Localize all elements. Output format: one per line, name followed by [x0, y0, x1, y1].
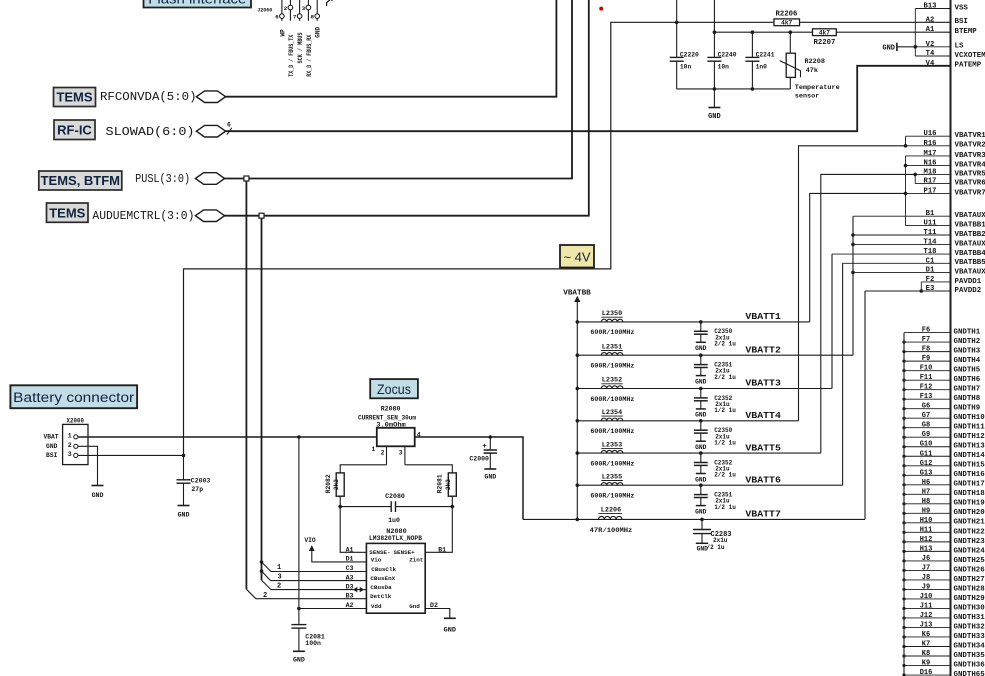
svg-text:/2 1u: /2 1u	[707, 544, 725, 551]
wire VBATBB5 to VBATT6	[842, 263, 844, 485]
svg-text:H12: H12	[920, 536, 933, 544]
svg-text:V2: V2	[926, 41, 935, 49]
svg-text:8: 8	[311, 13, 315, 20]
svg-text:Vio: Vio	[371, 556, 382, 563]
svg-text:G9: G9	[922, 431, 930, 439]
svg-text:C2003: C2003	[191, 478, 211, 485]
pin label D3	[346, 583, 354, 590]
wire VBATT5 row	[577, 451, 821, 455]
svg-text:2/2 1u: 2/2 1u	[714, 341, 736, 348]
label TEMS (RFCONVDA)	[54, 88, 96, 107]
wire RFCONVDA bus	[225, 0, 556, 97]
svg-text:GNDTH21: GNDTH21	[954, 519, 985, 527]
svg-text:J12: J12	[920, 612, 933, 620]
svg-text:G6: G6	[922, 403, 930, 411]
pin M17 VBATVR3	[906, 150, 985, 160]
pin J10 GNDTH29	[904, 593, 985, 603]
pin J6 GNDTH25	[904, 555, 985, 565]
svg-text:F12: F12	[920, 384, 933, 392]
pin K7 GNDTH34	[904, 640, 985, 650]
svg-text:V4: V4	[926, 60, 935, 68]
svg-text:27p: 27p	[191, 486, 203, 493]
svg-text:G12: G12	[920, 460, 933, 468]
pin T11 VBATBB2	[853, 229, 985, 239]
svg-text:H6: H6	[922, 479, 930, 487]
svg-text:VBATT4: VBATT4	[745, 410, 781, 421]
svg-text:2/2 1u: 2/2 1u	[714, 374, 736, 381]
pin F6 GNDTH1	[904, 327, 981, 337]
svg-text:3: 3	[399, 450, 403, 457]
wire VBATT4 row	[577, 419, 798, 423]
svg-text:CBusEnX: CBusEnX	[370, 575, 395, 582]
svg-text:SENSE+: SENSE+	[394, 549, 416, 556]
svg-text:F10: F10	[920, 365, 933, 373]
svg-text:GNDTH19: GNDTH19	[954, 500, 985, 508]
svg-text:A1: A1	[346, 547, 354, 554]
svg-text:VBATBB2: VBATBB2	[955, 231, 985, 239]
node PUSL tap square	[244, 176, 249, 181]
IC N2080 (LM3820TLX_NOPB)	[366, 528, 425, 613]
svg-text:B13: B13	[924, 3, 937, 11]
svg-text:D16: D16	[920, 669, 933, 676]
pin U11 VBATBB1	[906, 220, 985, 230]
label Battery connector	[10, 385, 137, 408]
svg-text:GNDTH20: GNDTH20	[954, 509, 985, 517]
svg-text:1u0: 1u0	[388, 517, 400, 524]
svg-text:SENSE-: SENSE-	[369, 549, 390, 556]
svg-text:C2220: C2220	[680, 52, 699, 59]
svg-text:R2206: R2206	[776, 10, 798, 18]
svg-text:AUDUEMCTRL(3:0): AUDUEMCTRL(3:0)	[92, 209, 194, 223]
wire R2080 pin4 to VBATT7	[415, 435, 523, 519]
svg-text:H7: H7	[922, 488, 930, 496]
svg-text:Temperature: Temperature	[795, 84, 840, 92]
svg-text:3: 3	[278, 573, 282, 581]
svg-text:600R/100MHz: 600R/100MHz	[590, 363, 634, 370]
svg-text:R16: R16	[924, 140, 937, 148]
inductor L2354	[590, 409, 634, 435]
svg-text:GND: GND	[708, 113, 721, 121]
bus terminator AUDUEMCTRL	[195, 210, 224, 222]
ground (C2000)	[484, 469, 496, 481]
svg-text:GND: GND	[293, 656, 305, 663]
svg-text:C2080: C2080	[385, 493, 405, 500]
svg-text:GND: GND	[882, 44, 895, 52]
node AUDUEMCTRL tap square	[259, 213, 264, 218]
svg-text:GNDTH27: GNDTH27	[954, 576, 985, 584]
svg-text:K7: K7	[922, 640, 930, 648]
net label VBATT6	[745, 474, 781, 485]
svg-text:2k2: 2k2	[333, 479, 340, 490]
svg-text:GND: GND	[695, 378, 707, 385]
wire CBusClk breakout bit1	[260, 560, 367, 572]
svg-text:GNDTH29: GNDTH29	[954, 595, 985, 603]
svg-text:GNDTH11: GNDTH11	[954, 424, 985, 432]
wire Gnd pin D2	[425, 609, 450, 619]
svg-text:J9: J9	[922, 583, 930, 591]
svg-text:1/2 1u: 1/2 1u	[714, 439, 736, 446]
pin label A2	[346, 602, 354, 609]
ground (BTEMP filters)	[708, 89, 721, 121]
pin U16 VBATVR1	[906, 130, 985, 140]
pin G6 GNDTH9	[904, 403, 980, 413]
svg-text:GNDTH5: GNDTH5	[954, 367, 981, 375]
svg-text:~ 4V: ~ 4V	[563, 250, 590, 265]
pin H12 GNDTH23	[904, 536, 985, 546]
svg-text:R2080: R2080	[381, 406, 401, 413]
svg-text:GNDTH9: GNDTH9	[954, 405, 981, 413]
svg-text:VBAT: VBAT	[43, 434, 58, 441]
svg-text:B1: B1	[438, 547, 446, 554]
svg-text:GNDTH3: GNDTH3	[954, 348, 981, 356]
resistor R2082	[325, 473, 344, 496]
svg-text:H11: H11	[920, 526, 933, 534]
svg-text:GNDTH4: GNDTH4	[954, 357, 981, 365]
svg-text:Battery connector: Battery connector	[13, 390, 135, 405]
wire R2080 pin3 to R2081	[405, 465, 452, 473]
net label VBATT2	[745, 344, 781, 355]
svg-text:4k7: 4k7	[819, 30, 830, 37]
wire PAVDD1-2 tie	[920, 282, 924, 293]
svg-text:GNDTH2: GNDTH2	[954, 338, 981, 346]
capacitor C2240	[707, 0, 736, 89]
svg-text:GNDTH16: GNDTH16	[954, 471, 985, 479]
net label VBATT7	[745, 509, 781, 520]
pin E3 PAVDD2	[865, 285, 982, 295]
svg-text:Zocus: Zocus	[377, 382, 411, 397]
wire VBATBB4 to VBATT3	[831, 254, 833, 388]
svg-text:6: 6	[275, 13, 279, 20]
svg-text:1n0: 1n0	[756, 64, 768, 71]
svg-text:PUSL(3:0): PUSL(3:0)	[135, 172, 190, 186]
svg-text:BSI: BSI	[46, 452, 58, 459]
wire Vdd to VBAT	[297, 607, 366, 611]
pin C1 VBATBB5	[843, 257, 985, 267]
svg-text:K9: K9	[922, 660, 930, 668]
svg-text:R17: R17	[924, 178, 937, 186]
svg-text:Gnd: Gnd	[409, 603, 420, 610]
svg-text:J2060: J2060	[257, 6, 273, 13]
capacitor C2003	[177, 455, 211, 505]
inductor L2353	[590, 441, 634, 467]
svg-text:600R/100MHz: 600R/100MHz	[590, 396, 634, 403]
svg-text:VBATAUX2: VBATAUX2	[955, 240, 985, 248]
pin G9 GNDTH12	[904, 431, 985, 441]
node BTEMP/R2208 junction	[789, 30, 793, 34]
pin K6 GNDTH33	[904, 631, 985, 641]
svg-text:600R/100MHz: 600R/100MHz	[590, 460, 634, 467]
svg-text:VIO: VIO	[304, 537, 316, 544]
wire SLOWAD bus to PATEMP	[225, 66, 951, 131]
svg-text:K6: K6	[922, 631, 930, 639]
pin G11 GNDTH14	[904, 450, 985, 460]
svg-text:2: 2	[381, 450, 385, 457]
svg-text:BSI: BSI	[955, 18, 968, 26]
pin T4 VCXOTEM	[915, 50, 985, 60]
svg-text:DetClk: DetClk	[370, 593, 392, 600]
svg-text:J10: J10	[920, 593, 933, 601]
wire VBATT6 row	[577, 483, 842, 487]
svg-text:J7: J7	[922, 564, 930, 572]
inductor L2355	[590, 473, 634, 499]
svg-text:PAVDD1: PAVDD1	[955, 278, 982, 286]
svg-text:1: 1	[372, 446, 376, 453]
svg-text:GNDTH25: GNDTH25	[954, 557, 985, 565]
pin M18 VBATVR5	[915, 168, 985, 178]
connector J2060 designator	[257, 6, 273, 13]
ground (battery pin 2)	[92, 486, 104, 499]
wire AUDUEMCTRL vertical drop	[261, 218, 263, 580]
pin G7 GNDTH10	[904, 412, 985, 422]
svg-text:GND: GND	[484, 474, 496, 481]
svg-text:GNDTH1: GNDTH1	[954, 329, 981, 337]
svg-text:2: 2	[68, 442, 72, 449]
pin J7 GNDTH26	[904, 564, 985, 574]
svg-text:4k7: 4k7	[781, 20, 792, 27]
ground (LS pin)	[882, 43, 915, 53]
net RFCONVDA(5:0) name	[100, 90, 197, 104]
pin V2 LS	[897, 41, 964, 51]
pin G10 GNDTH13	[904, 441, 985, 451]
svg-text:2k2: 2k2	[445, 479, 452, 490]
svg-text:G10: G10	[920, 441, 933, 449]
svg-text:LM3820TLX_NOPB: LM3820TLX_NOPB	[369, 535, 422, 542]
pin label C3	[346, 565, 354, 572]
pin K8 GNDTH35	[904, 650, 985, 660]
capacitor C2080	[340, 493, 452, 524]
wire BSI from battery	[78, 454, 184, 456]
label TEMS, BTFM (PUSL)	[39, 171, 122, 190]
svg-text:sensor: sensor	[795, 93, 819, 101]
sense resistor R2080	[358, 406, 421, 465]
svg-text:GND: GND	[695, 345, 707, 352]
pin P17 VBATVR7	[906, 187, 985, 197]
bus terminator RFCONVDA	[196, 91, 225, 103]
connector X2000	[43, 418, 88, 465]
svg-text:VBATVR7: VBATVR7	[955, 189, 985, 197]
svg-text:N16: N16	[924, 160, 937, 168]
svg-text:F2: F2	[926, 276, 935, 284]
svg-text:VBATAUX1: VBATAUX1	[955, 212, 985, 220]
pin J8 GNDTH27	[904, 574, 985, 584]
svg-text:GNDTH7: GNDTH7	[954, 386, 981, 394]
svg-text:J13: J13	[920, 621, 933, 629]
svg-text:GNDTH24: GNDTH24	[954, 547, 985, 555]
inductor L2352	[590, 377, 634, 403]
svg-text:RX_D / FBUS_RX: RX_D / FBUS_RX	[306, 34, 313, 76]
ground (N2080 Gnd)	[444, 618, 456, 634]
svg-text:RF-IC: RF-IC	[57, 122, 92, 137]
bus width tick 6	[227, 122, 232, 135]
svg-text:47k: 47k	[806, 67, 818, 75]
capacitor C2351 (VBATT2)	[694, 355, 736, 385]
svg-text:GNDTH8: GNDTH8	[954, 395, 981, 403]
wire battery GND pin	[78, 446, 98, 485]
svg-text:GNDTH33: GNDTH33	[954, 633, 985, 641]
svg-text:R2207: R2207	[813, 39, 835, 47]
svg-text:2: 2	[284, 5, 288, 12]
pin H9 GNDTH20	[904, 507, 985, 517]
svg-text:VBATT1: VBATT1	[745, 311, 781, 322]
svg-text:F9: F9	[922, 355, 930, 363]
pin F10 GNDTH5	[904, 365, 980, 375]
svg-text:600R/100MHz: 600R/100MHz	[590, 493, 634, 500]
node BSI/C2220 junction	[675, 21, 679, 25]
svg-text:G11: G11	[920, 450, 933, 458]
svg-text:GNDTH22: GNDTH22	[954, 528, 985, 536]
svg-text:6: 6	[227, 122, 231, 129]
svg-text:F13: F13	[920, 393, 933, 401]
svg-text:GND: GND	[315, 26, 322, 37]
svg-text:F8: F8	[922, 346, 930, 354]
svg-text:GNDTH13: GNDTH13	[954, 443, 985, 451]
pin F7 GNDTH2	[904, 336, 980, 346]
wire AUDUEMCTRL bus	[224, 0, 589, 216]
net label VBATT3	[745, 378, 781, 389]
pin H11 GNDTH22	[904, 526, 985, 536]
net label VBATT1	[745, 311, 781, 322]
svg-text:VBATT6: VBATT6	[745, 474, 781, 485]
connector J2060 pins	[275, 0, 321, 77]
svg-text:47R/100MHz: 47R/100MHz	[590, 527, 633, 534]
svg-text:GNDTH14: GNDTH14	[954, 452, 985, 460]
svg-text:10n: 10n	[680, 64, 692, 71]
svg-text:BTEMP: BTEMP	[955, 28, 978, 36]
wire CBusDa breakout bit2	[262, 580, 367, 592]
pin H13 GNDTH24	[904, 545, 985, 555]
svg-text:VBATT3: VBATT3	[745, 378, 781, 389]
capacitor C2352 (VBATT5)	[694, 453, 736, 483]
wire VBATVR3-4-7-BB1 tie	[904, 156, 908, 226]
pin T14 VBATAUX2	[853, 238, 985, 248]
pin B13 VSS	[915, 3, 968, 13]
label TEMS (AUDUEMCTRL)	[47, 203, 89, 222]
wire VBAT drop to Vdd/C2081	[298, 437, 300, 625]
svg-text:GNDTH23: GNDTH23	[954, 538, 985, 546]
wire VBATT7 row	[523, 518, 865, 522]
pin label B1	[438, 547, 446, 554]
svg-text:T4: T4	[926, 50, 935, 58]
pin F11 GNDTH6	[904, 374, 980, 384]
wire PUSL vertical drop	[245, 181, 247, 589]
wire GNDTH bus vertical	[902, 333, 905, 676]
svg-text:T11: T11	[924, 229, 938, 237]
svg-text:A1: A1	[926, 26, 935, 34]
wire VBATT3 row	[577, 387, 832, 391]
svg-text:1: 1	[68, 432, 72, 439]
wire R2082 to SENSE-	[338, 496, 366, 552]
svg-text:1/2 1u: 1/2 1u	[714, 407, 736, 414]
svg-text:C2240: C2240	[718, 52, 737, 59]
capacitor C2352 (VBATT3)	[694, 389, 736, 419]
svg-text:PATEMP: PATEMP	[955, 62, 982, 70]
svg-text:T18: T18	[924, 248, 937, 256]
svg-text:GND: GND	[695, 508, 707, 515]
svg-text:VBATT2: VBATT2	[745, 344, 781, 355]
svg-text:J6: J6	[922, 555, 930, 563]
thermistor R2208 (temperature sensor)	[780, 32, 840, 100]
resistor R2207	[813, 29, 837, 47]
svg-text:X2000: X2000	[67, 418, 85, 425]
pin G13 GNDTH16	[904, 469, 985, 479]
capacitor C2283	[693, 519, 732, 552]
wire VBATVR5-6 tie	[913, 173, 917, 184]
svg-text:GNDTH36: GNDTH36	[954, 661, 985, 669]
pin R16 VBATVR2	[906, 140, 985, 150]
svg-text:D1: D1	[926, 266, 935, 274]
svg-text:H9: H9	[922, 507, 930, 515]
svg-text:GNDTH65: GNDTH65	[954, 671, 985, 676]
svg-text:H10: H10	[920, 517, 933, 525]
svg-text:7: 7	[293, 13, 297, 20]
net AUDUEMCTRL(3:0) name	[92, 209, 194, 223]
svg-text:R2208: R2208	[805, 58, 825, 66]
svg-text:VBATVR5: VBATVR5	[955, 170, 985, 178]
pin A2 BSI	[926, 16, 968, 26]
pin F2 PAVDD1	[921, 276, 981, 286]
svg-text:2: 2	[277, 583, 281, 591]
svg-text:VBATBB5: VBATBB5	[955, 259, 985, 267]
svg-text:VBATVR4: VBATVR4	[955, 162, 985, 170]
pin J13 GNDTH32	[904, 621, 985, 631]
svg-text:1/2 1u: 1/2 1u	[714, 504, 736, 511]
svg-text:TEMS: TEMS	[56, 90, 92, 105]
pin F8 GNDTH3	[904, 346, 980, 356]
pin label B3	[346, 592, 354, 599]
pin J9 GNDTH28	[904, 583, 985, 593]
svg-text:TEMS, BTFM: TEMS, BTFM	[41, 173, 120, 188]
svg-text:H13: H13	[920, 545, 933, 553]
label ~4V	[560, 245, 594, 268]
red marker dot	[599, 7, 603, 11]
wire VSS-LS-VCXOTEM tie	[914, 9, 918, 57]
svg-text:M17: M17	[924, 150, 937, 158]
label RF-IC (SLOWAD)	[54, 120, 95, 140]
wire BTEMP net	[714, 31, 950, 33]
svg-text:R2082: R2082	[325, 474, 332, 493]
pin J12 GNDTH31	[904, 612, 985, 622]
resistor R2081	[437, 473, 457, 496]
svg-text:GNDTH34: GNDTH34	[954, 642, 985, 650]
svg-text:GNDTH30: GNDTH30	[954, 604, 985, 612]
pin R17 VBATVR6	[915, 178, 985, 188]
pin label A1	[346, 547, 354, 554]
wire VBATVR1-2 tie	[904, 136, 908, 147]
svg-text:VBATVR2: VBATVR2	[955, 142, 985, 150]
node BSI/C2003 junction	[182, 454, 186, 458]
wire VBATVR7 to VBATT1	[810, 193, 906, 322]
pin N16 VBATVR4	[906, 160, 985, 170]
svg-text:VBATT5: VBATT5	[745, 442, 781, 453]
svg-text:GNDTH26: GNDTH26	[954, 566, 985, 574]
capacitor C2350 (VBATT4)	[694, 421, 736, 451]
svg-text:3: 3	[68, 451, 72, 458]
svg-text:100n: 100n	[305, 640, 321, 647]
svg-text:P17: P17	[924, 187, 937, 195]
net label VBATT5	[745, 442, 781, 453]
svg-text:GNDTH28: GNDTH28	[954, 585, 985, 593]
wire R2080 pin2 to R2082	[340, 465, 386, 473]
inductor L2206	[590, 506, 633, 534]
pin D16 GNDTH65	[904, 669, 985, 676]
svg-text:C2000: C2000	[469, 455, 489, 462]
svg-text:GND: GND	[444, 626, 456, 634]
svg-text:B1: B1	[926, 210, 935, 218]
svg-text:GNDTH35: GNDTH35	[954, 652, 985, 660]
svg-text:GNDTH6: GNDTH6	[954, 376, 981, 384]
wire VBATT1 row	[577, 320, 809, 324]
capacitor C2000 (polarized)	[469, 437, 497, 469]
